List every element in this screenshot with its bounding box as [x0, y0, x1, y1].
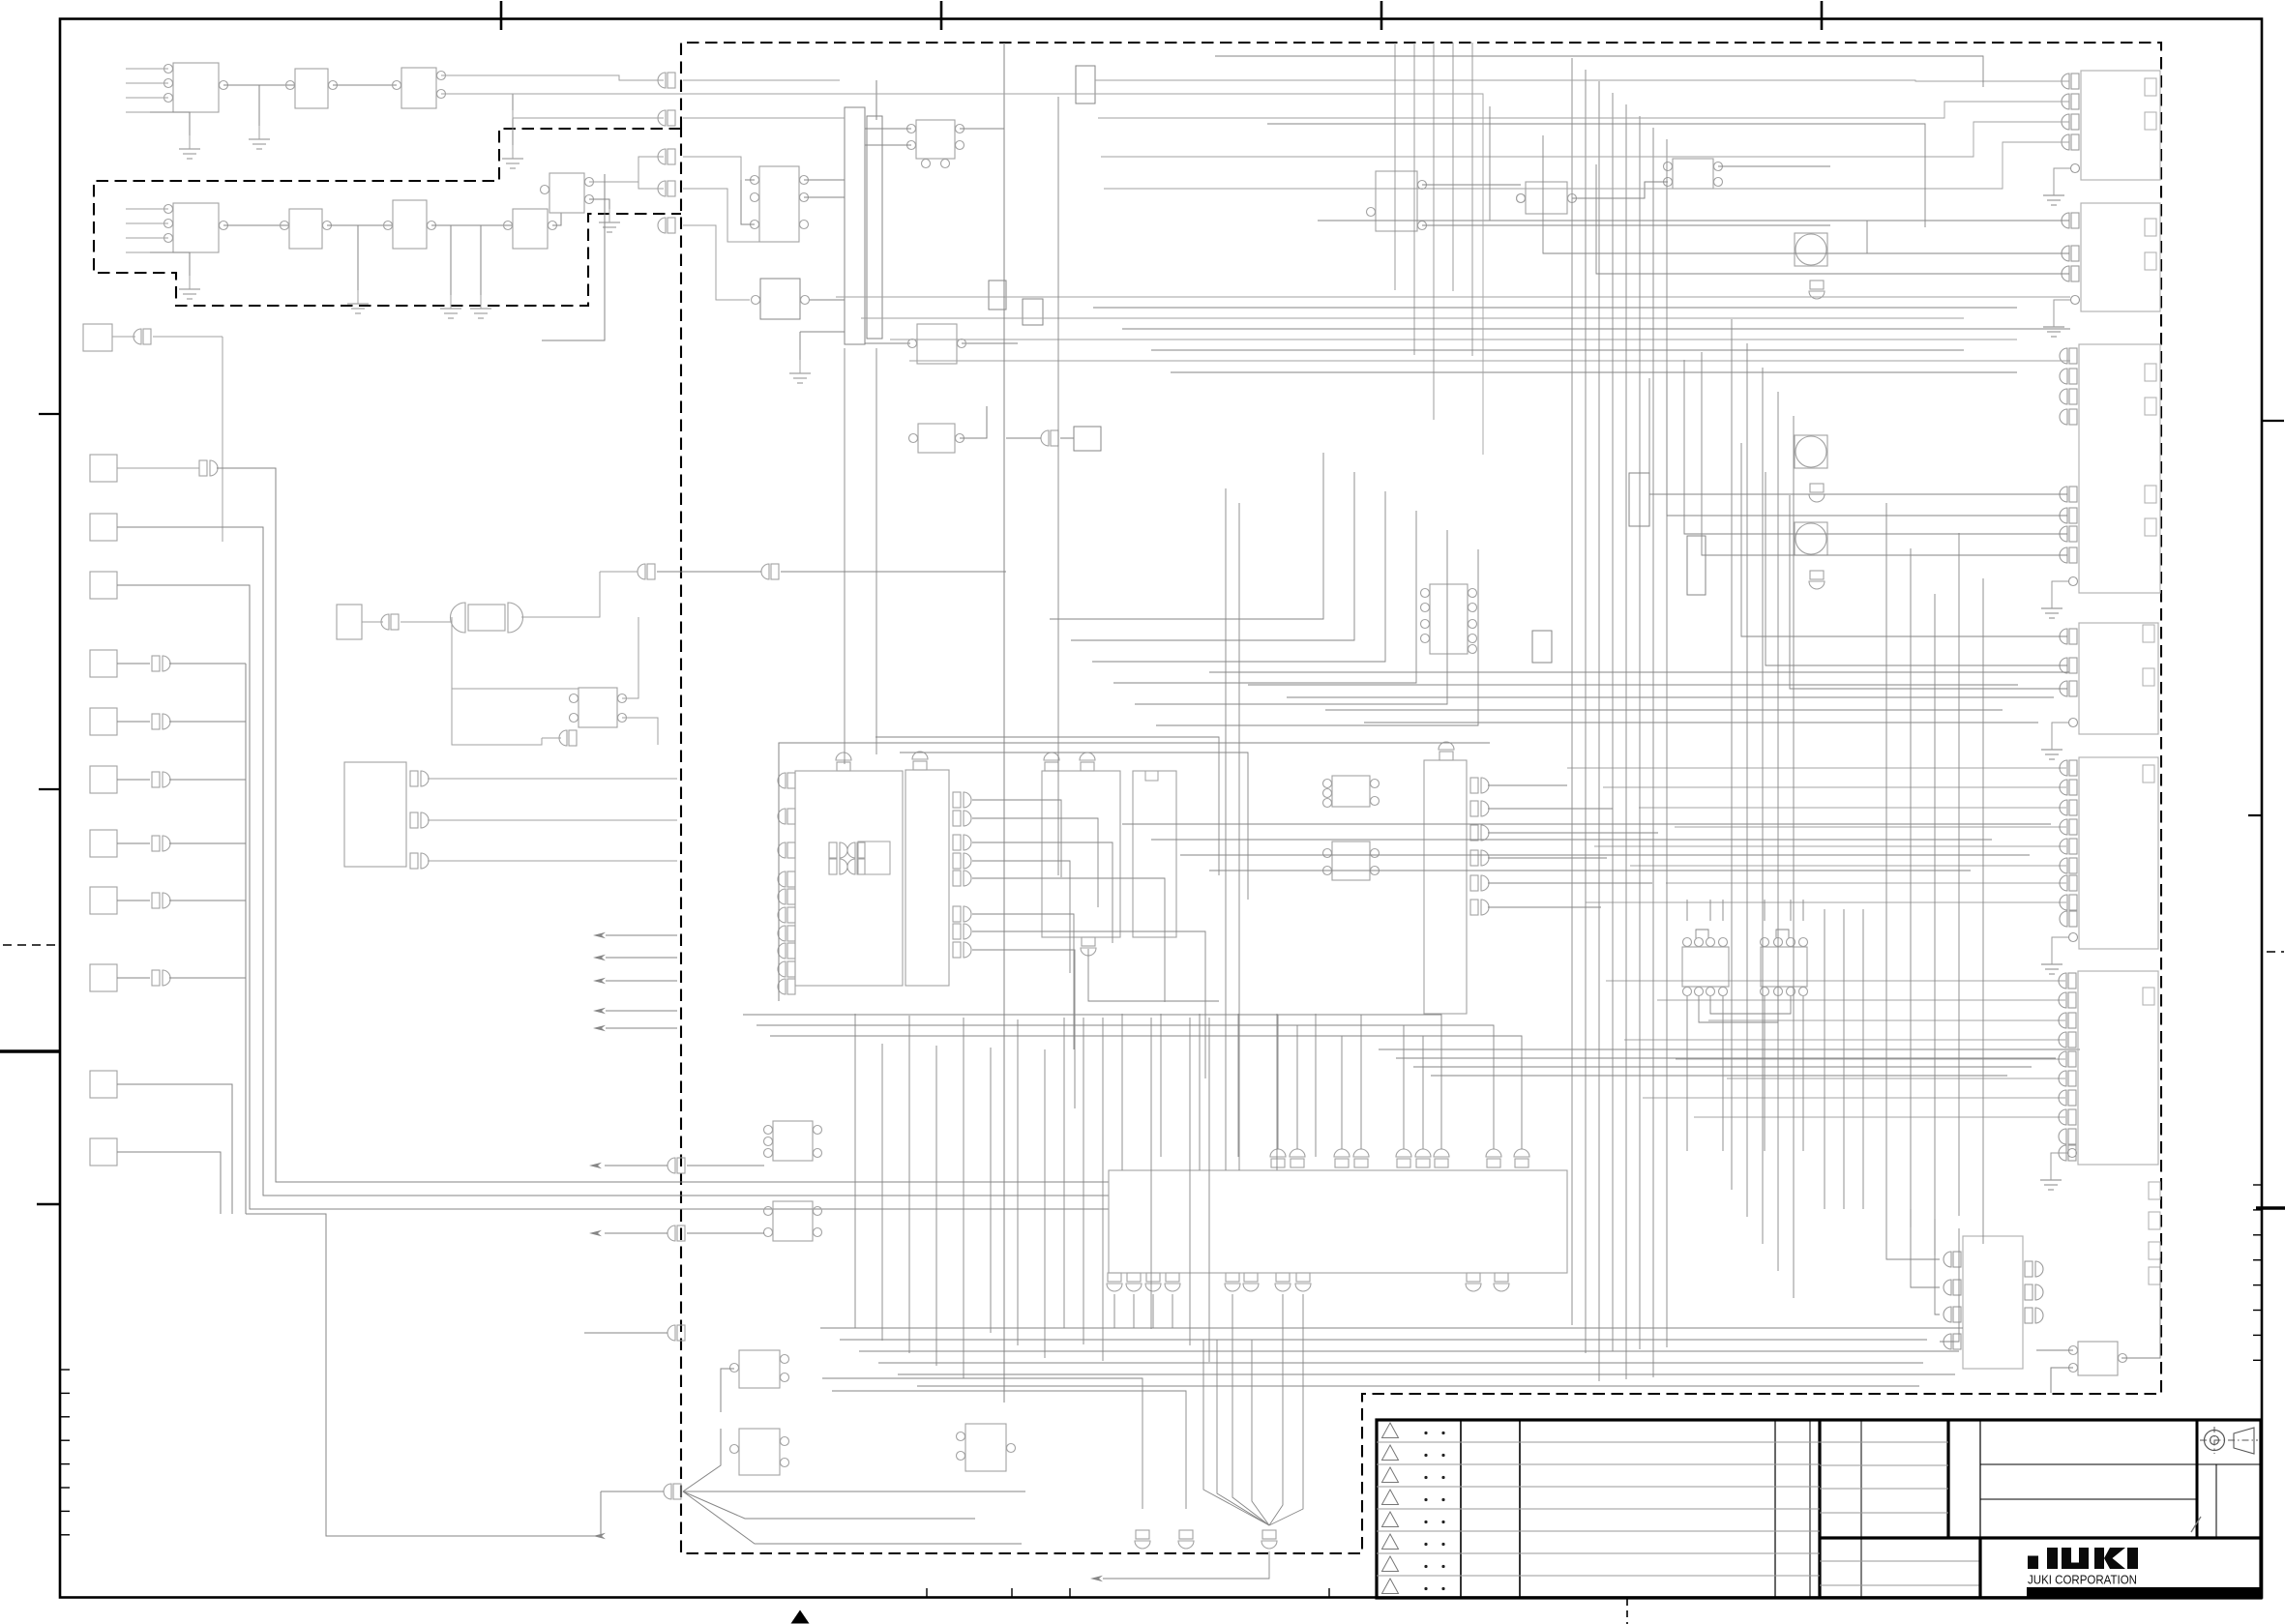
svg-text:JUKI CORPORATION: JUKI CORPORATION: [2028, 1573, 2137, 1587]
